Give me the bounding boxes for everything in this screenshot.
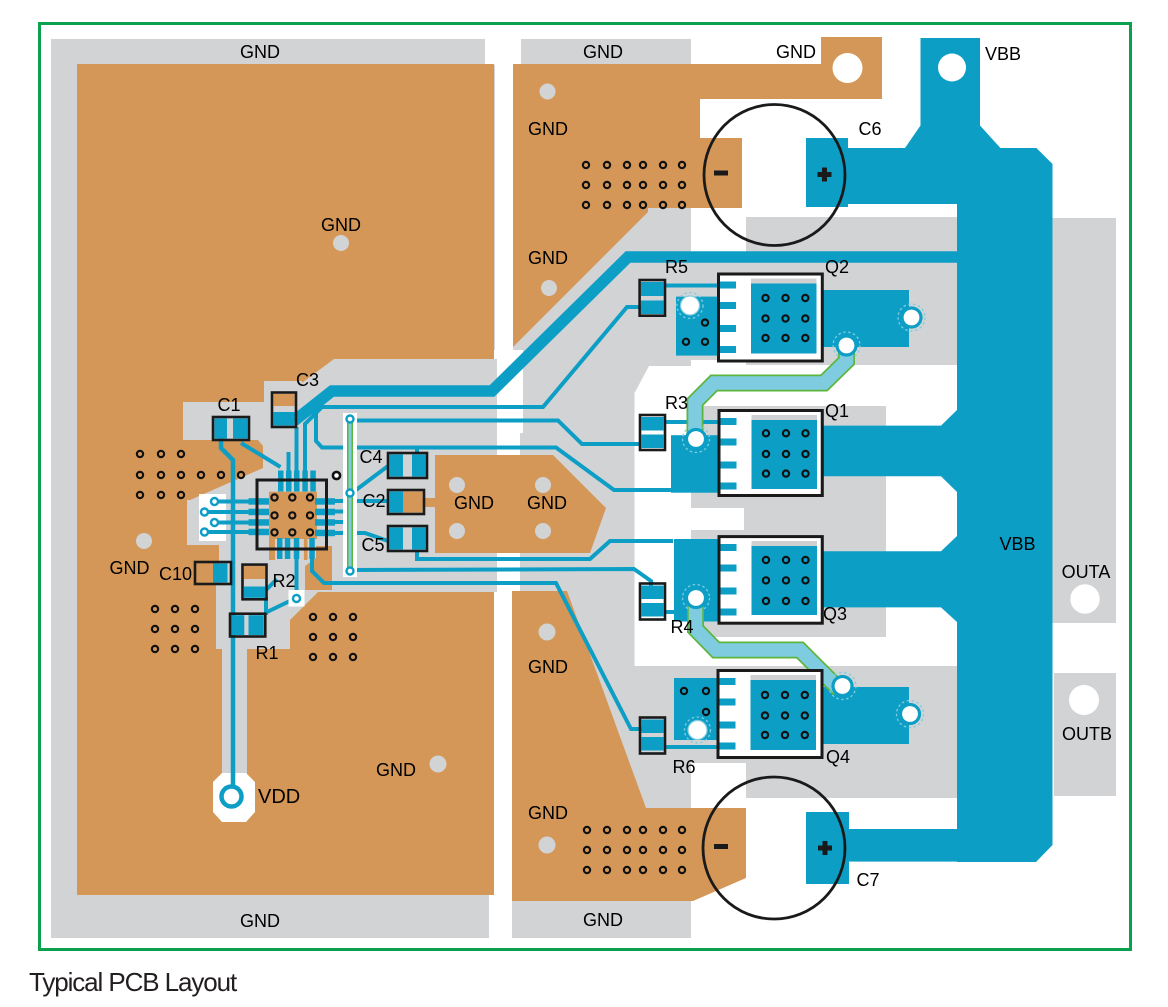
gray OUTA column <box>1052 218 1116 623</box>
Q2 drain bar <box>822 290 909 347</box>
trace R5 to Q2 pin <box>665 284 718 288</box>
svg-text:R5: R5 <box>665 257 688 277</box>
svg-text:VDD: VDD <box>258 786 300 808</box>
black via right of IC <box>333 472 340 479</box>
gray Q4 row backing <box>746 666 957 798</box>
electrolytic capacitor C6 outline <box>704 105 845 246</box>
hexagon pad D near Q4 <box>833 677 852 696</box>
S-trace Q3 to Q4 green outline <box>696 600 844 686</box>
VDD trace <box>221 438 233 792</box>
gray OUTB tab <box>1054 673 1116 796</box>
trace IC right to C2 <box>327 499 388 503</box>
C7 minus sign <box>714 844 728 849</box>
right side gray: Q2 row backing <box>746 217 957 365</box>
ring pad fan 1 <box>211 498 218 505</box>
vertical trace V1 green outline <box>347 419 353 571</box>
Q2 gate pad hole <box>681 296 700 315</box>
hole left top <box>333 235 349 251</box>
hole mid col top1 <box>540 84 556 100</box>
trace IC right to C5 <box>327 533 388 541</box>
trace T1 to R5 <box>305 307 641 471</box>
orange wedge over component zone (left of IC) <box>77 440 263 500</box>
S-trace Q2 to Q1 green outline <box>695 350 847 438</box>
Q4 gate pad hole <box>688 721 707 740</box>
transistor Q3 <box>718 537 823 624</box>
thick bus trace C3 to VBB bar <box>294 257 957 421</box>
svg-text:Q4: Q4 <box>826 747 850 767</box>
capacitor C4 <box>388 453 427 478</box>
capacitor C3 <box>272 393 296 428</box>
middle gray panel <box>512 39 691 938</box>
resistor R3 <box>640 415 665 450</box>
ring pad fan 3 <box>211 519 218 526</box>
svg-text:C6: C6 <box>858 119 881 139</box>
trace C4 diag to ring <box>352 466 388 493</box>
hole VBB tower <box>938 54 966 82</box>
VBB vertical bar <box>957 204 1053 862</box>
hole mid col top2 <box>541 280 557 296</box>
orange patch below IC right <box>305 546 332 590</box>
trace IC pin2 stub <box>287 452 291 472</box>
svg-text:GND: GND <box>528 803 568 823</box>
capacitor C6 plus pad <box>806 138 848 207</box>
hole left mid <box>136 533 152 549</box>
resistor R2 <box>243 565 267 600</box>
Q1 gate pad <box>671 435 719 493</box>
via grid left upper <box>137 451 244 498</box>
Q3 drain band <box>822 536 957 622</box>
C6 minus sign <box>714 171 728 176</box>
trace T4 to Q1 gate <box>316 413 673 490</box>
white square behind via below IC <box>289 590 305 607</box>
hexagon pad on Q2 drain bar <box>902 308 921 327</box>
ring pad mid of V1 <box>347 490 354 497</box>
svg-text:GND: GND <box>583 910 623 930</box>
dashed halos around hexagon pads <box>677 293 925 744</box>
svg-text:VBB: VBB <box>999 534 1035 554</box>
svg-text:GND: GND <box>776 42 816 62</box>
resistor R1 <box>230 614 265 637</box>
vertical trace V1 light teal <box>349 419 352 571</box>
white channel behind V1 <box>343 413 357 577</box>
middle column top orange pour <box>513 37 882 347</box>
trace ring to R4 <box>350 569 651 590</box>
via grid mid col top <box>583 162 685 208</box>
C6 plus sign <box>818 172 832 177</box>
electrolytic capacitor C7 outline <box>703 777 845 919</box>
svg-text:GND: GND <box>528 657 568 677</box>
trace via to R1 <box>265 598 296 613</box>
svg-text:GND: GND <box>528 248 568 268</box>
left gray panel <box>51 39 495 938</box>
svg-text:GND: GND <box>583 42 623 62</box>
trace R6 to Q4 pin <box>665 745 718 749</box>
svg-text:GND: GND <box>240 42 280 62</box>
trace R3 to Q1 pin <box>664 420 719 424</box>
svg-text:GND: GND <box>240 911 280 931</box>
svg-text:Q1: Q1 <box>825 401 849 421</box>
C7 band <box>806 829 972 862</box>
trace IC pin to C1 <box>241 443 281 467</box>
orange strip left of C10 <box>77 497 187 592</box>
svg-text:C7: C7 <box>856 870 879 890</box>
VBB C6 band <box>848 148 1053 204</box>
middle column bottom orange pour <box>512 591 746 901</box>
capacitor C1 <box>213 417 249 440</box>
orange GND hex pad (center) <box>435 455 606 553</box>
via grid mid col bottom <box>584 827 685 873</box>
trace IC bottom pin to via <box>295 549 299 598</box>
white gap column <box>495 65 513 350</box>
hexagon pad C Q3 gate <box>687 589 706 608</box>
Q4 drain bar <box>822 687 909 744</box>
trace C5 to Q3 gate <box>417 541 673 559</box>
hole top-right GND tab <box>833 53 863 83</box>
trace T3 to R3 top <box>350 421 640 445</box>
white region right side of middle column (Q rows) <box>635 366 692 666</box>
transistor Q1 <box>718 411 823 496</box>
hexagon pad A below Q2 <box>837 336 856 355</box>
ring pad fan 4 <box>201 529 208 536</box>
svg-text:VBB: VBB <box>985 44 1021 64</box>
hole mid col bot1 <box>539 624 556 641</box>
svg-text:R3: R3 <box>665 393 688 413</box>
left panel orange pour <box>77 64 494 895</box>
svg-text:R2: R2 <box>272 571 295 591</box>
holes GND hex pad <box>449 477 465 493</box>
ring pad fan 2 <box>201 509 208 516</box>
Q1 drain band <box>822 410 957 492</box>
IC U1 <box>249 471 336 561</box>
gray bridge Q4 row <box>691 666 747 763</box>
gray component zone left panel <box>183 359 497 592</box>
svg-text:Q2: Q2 <box>825 257 849 277</box>
svg-text:Typical PCB Layout: Typical PCB Layout <box>29 967 238 997</box>
svg-text:R1: R1 <box>255 643 278 663</box>
hole OUTB <box>1069 685 1099 715</box>
transistor Q2 <box>717 274 822 361</box>
Q4 gate pad <box>674 678 718 740</box>
trace to R6 <box>312 549 644 729</box>
Q3 gate pad <box>674 539 719 622</box>
gray plated holes on orange <box>136 84 557 854</box>
gray bridge Q1 row <box>691 406 745 508</box>
capacitor C7 plus pad <box>806 812 849 884</box>
svg-text:R4: R4 <box>670 617 693 637</box>
transistor Q4 <box>717 671 823 758</box>
svg-text:GND: GND <box>321 215 361 235</box>
hole mid col bot2 <box>539 837 556 854</box>
gray block Q1-Q3 rows <box>744 406 886 637</box>
ring pad top of V1 <box>347 416 354 423</box>
C7 plus sign <box>818 846 832 851</box>
svg-text:C3: C3 <box>296 370 319 390</box>
hole left bot <box>430 756 447 773</box>
capacitor C5 <box>388 526 427 551</box>
svg-text:C10: C10 <box>159 564 192 584</box>
gray VDD channel <box>222 649 247 782</box>
svg-text:GND: GND <box>110 558 150 578</box>
resistor R4 <box>640 584 665 620</box>
IC left fan traces <box>205 502 259 533</box>
white gap between panels top <box>485 38 521 65</box>
gray zone below IC (R1/R2 area) <box>216 592 318 649</box>
capacitor C10 <box>195 562 231 584</box>
S-trace Q2 to Q1 light teal <box>695 350 847 438</box>
white chamfer cut bottom-right of VBB bar <box>1036 845 1053 862</box>
VDD pad ring <box>222 787 242 807</box>
S-trace Q3 to Q4 light teal <box>696 600 844 686</box>
svg-text:C4: C4 <box>359 447 382 467</box>
trace R2 to R1 <box>264 597 268 615</box>
hexagon pad on Q4 drain bar <box>901 705 920 724</box>
via ring below IC <box>293 595 300 602</box>
trace IC right pin stubs <box>327 512 345 523</box>
white pocket left of IC <box>199 494 226 541</box>
trace R2 diag <box>266 579 277 590</box>
via grid left lower <box>152 606 198 652</box>
hole OUTA <box>1070 584 1099 613</box>
ring pad bottom of V1 <box>347 568 354 575</box>
svg-text:R6: R6 <box>672 757 695 777</box>
svg-text:C5: C5 <box>361 535 384 555</box>
svg-text:Q3: Q3 <box>823 604 847 624</box>
svg-text:GND: GND <box>527 493 567 513</box>
svg-text:OUTA: OUTA <box>1062 562 1111 582</box>
VBB tower top right <box>905 38 1000 148</box>
svg-text:GND: GND <box>376 760 416 780</box>
orange stub C2 to GND pad <box>420 498 438 507</box>
svg-text:OUTB: OUTB <box>1062 724 1112 744</box>
trace R4 to Q3 pin <box>665 610 719 614</box>
white VDD pad zone <box>213 773 255 822</box>
capacitor C2 <box>388 490 424 514</box>
hexagon pad B Q1 gate <box>687 430 706 449</box>
via grid below IC right <box>310 614 356 660</box>
gray bridge Q3 row <box>691 530 745 637</box>
svg-text:C1: C1 <box>217 395 240 415</box>
svg-text:GND: GND <box>528 119 568 139</box>
svg-text:C2: C2 <box>362 491 385 511</box>
TEAL_SHAPES <box>671 38 1053 884</box>
resistor R6 <box>640 718 665 754</box>
resistor R5 <box>640 280 665 316</box>
gray bridge R5/Q2 row <box>691 255 747 360</box>
trace C3 down to IC <box>295 427 299 480</box>
svg-text:GND: GND <box>454 493 494 513</box>
Q2 gate pad <box>676 297 718 356</box>
